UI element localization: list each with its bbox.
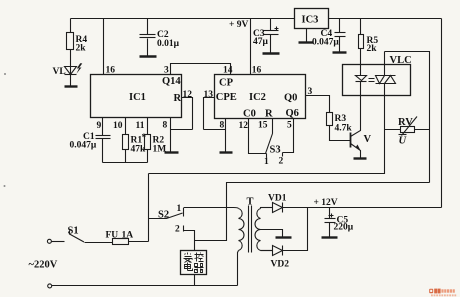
- wire C0 pin12 of IC2 to S3 contact1: [249, 119, 267, 154]
- resistor R4: [67, 19, 88, 67]
- svg-text:VLC: VLC: [390, 55, 412, 66]
- svg-text:3: 3: [308, 87, 313, 97]
- svg-text:R: R: [265, 109, 273, 120]
- ground of VL: [65, 85, 78, 87]
- wire CPE pin13 of IC2 to pin8 net: [204, 98, 226, 130]
- svg-text:13: 13: [204, 90, 214, 100]
- switch S2: [149, 174, 195, 251]
- capacitor C4: [312, 19, 346, 53]
- regulator IC3: [295, 9, 329, 43]
- capacitor C1: [70, 118, 111, 163]
- wire +12V feed right vertical: [441, 19, 443, 208]
- svg-text:S2: S2: [158, 210, 169, 221]
- ground of C3: [263, 52, 280, 54]
- svg-text:VD2: VD2: [271, 260, 290, 270]
- wire Q0 pin3 of IC2 to R3: [306, 96, 330, 113]
- svg-text:0.047μ: 0.047μ: [70, 141, 97, 151]
- svg-text:+ 9V: + 9V: [229, 20, 249, 30]
- wire +9V top rail right segment: [329, 18, 442, 20]
- svg-text:10: 10: [113, 121, 123, 131]
- svg-text:1: 1: [264, 157, 269, 167]
- switch S3: [266, 119, 283, 158]
- svg-text:5: 5: [287, 121, 292, 131]
- ground of IC1 pin8: [165, 151, 179, 153]
- svg-text:47μ: 47μ: [253, 37, 269, 47]
- svg-text:Q14: Q14: [162, 76, 181, 87]
- ground of C5: [322, 236, 338, 238]
- svg-text:RV: RV: [398, 117, 413, 128]
- op IC1 box: [91, 75, 182, 118]
- ground of C4: [333, 51, 347, 53]
- svg-text:V: V: [364, 134, 372, 145]
- transformer T secondary winding: [255, 208, 273, 251]
- resistor R3: [327, 113, 353, 141]
- optocoupler box of VLC: [343, 65, 411, 96]
- svg-text:0.047μ: 0.047μ: [312, 38, 339, 48]
- triac inside optocoupler: [376, 52, 396, 96]
- svg-text:47k: 47k: [131, 145, 147, 155]
- svg-text:VL: VL: [53, 67, 66, 77]
- svg-text:9: 9: [97, 121, 102, 131]
- wire R pin12 of IC1 down to pin8 net: [182, 98, 193, 130]
- wire +12V rail: [283, 207, 442, 209]
- wire secondary center tap to ground: [261, 230, 283, 237]
- transformer core: [249, 206, 252, 253]
- svg-text:1M: 1M: [153, 145, 167, 155]
- svg-text:4.7k: 4.7k: [335, 124, 353, 134]
- decorative speck left lower: [4, 185, 6, 187]
- wire triac bottom to S2 junction (wire 1): [149, 96, 385, 174]
- svg-text:0.01μ: 0.01μ: [157, 39, 180, 49]
- svg-text:Q0: Q0: [284, 93, 297, 104]
- wire IC2 pin 16 to rail: [250, 19, 252, 75]
- svg-text:T: T: [247, 197, 254, 208]
- LED VL: [53, 63, 83, 85]
- svg-text:R: R: [174, 93, 182, 104]
- svg-text:220μ: 220μ: [334, 223, 354, 233]
- svg-text:Q6: Q6: [286, 108, 299, 119]
- svg-text:8: 8: [163, 121, 168, 131]
- wire pin8 of IC1 to ground: [171, 118, 193, 153]
- resistor R2: [145, 118, 167, 163]
- wire IC1 pin 16 to rail: [103, 19, 105, 75]
- diode VD1: [261, 194, 287, 213]
- transformer T primary winding: [184, 208, 245, 286]
- load box controlled-appliance (受控电器): [181, 251, 207, 286]
- svg-text:8: 8: [220, 121, 225, 131]
- svg-text:CP: CP: [219, 78, 234, 89]
- wire VLC right rail to load net (wire 2): [195, 183, 430, 241]
- wire Q6 pin5 of IC2 to S3 contact2: [283, 119, 294, 153]
- svg-text:+ 12V: + 12V: [314, 198, 338, 208]
- svg-text:R3: R3: [335, 114, 347, 124]
- wire mains neutral bottom: [48, 284, 238, 288]
- diode VD2: [261, 208, 308, 270]
- decorative speck left upper: [4, 73, 6, 75]
- svg-text:IC2: IC2: [249, 92, 266, 103]
- svg-text:FU: FU: [106, 231, 119, 241]
- svg-text:IC1: IC1: [129, 92, 146, 103]
- svg-text:VD1: VD1: [268, 194, 287, 204]
- wire triac top to VLC right rail: [385, 52, 430, 183]
- svg-text:11: 11: [136, 121, 145, 131]
- varistor RV: [385, 117, 430, 147]
- ground of IC2 pin8: [220, 151, 233, 153]
- svg-text:12: 12: [183, 90, 193, 100]
- ground of C2: [140, 55, 157, 57]
- watermark logo: [429, 289, 456, 297]
- ground of transistor V: [354, 157, 367, 159]
- svg-text:S1: S1: [68, 226, 79, 237]
- svg-text:1: 1: [177, 204, 182, 214]
- coupling marks: [369, 79, 375, 82]
- LED inside optocoupler: [356, 65, 367, 96]
- svg-text:2k: 2k: [76, 44, 87, 54]
- transistor V: [351, 96, 372, 158]
- capacitor C5: [325, 208, 354, 237]
- svg-text:~220V: ~220V: [29, 260, 58, 271]
- svg-text:S3: S3: [270, 145, 281, 156]
- svg-text:C0: C0: [243, 109, 256, 120]
- capacitor C3: [253, 19, 279, 54]
- ground of center tap: [276, 236, 292, 238]
- svg-text:12: 12: [239, 121, 249, 131]
- op IC2 box: [215, 75, 306, 120]
- svg-text:2: 2: [279, 157, 284, 167]
- ground of IC3: [299, 41, 314, 43]
- svg-text:2: 2: [175, 225, 180, 235]
- switch S1: [47, 226, 84, 244]
- fuse FU 1A: [85, 231, 149, 245]
- svg-text:3: 3: [164, 66, 169, 76]
- wire pin8 of IC2 to ground: [225, 119, 227, 153]
- resistor R5: [359, 19, 379, 65]
- wire bottom tie C1 R1 R2: [103, 162, 148, 164]
- svg-text:15: 15: [258, 121, 268, 131]
- svg-text:2k: 2k: [367, 44, 378, 54]
- wire Q14 pin3 of IC1 to CP pin14 of IC2: [171, 64, 231, 75]
- resistor R1: [123, 118, 147, 163]
- capacitor C2: [140, 19, 180, 56]
- svg-text:IC3: IC3: [302, 15, 319, 26]
- wire +9V top rail left segment: [71, 18, 295, 20]
- svg-text:CPE: CPE: [216, 92, 237, 103]
